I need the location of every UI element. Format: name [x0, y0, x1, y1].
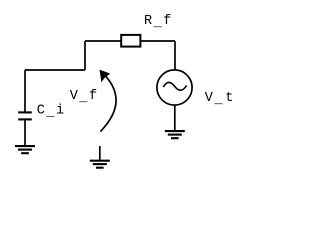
label V_f (node label) [70, 89, 99, 106]
label V_t [205, 91, 235, 108]
resistor R_f (box style) [121, 35, 140, 47]
ground (below C_i) [15, 146, 35, 153]
wire: from source V_t bottom to ground [174, 105, 176, 131]
ground (below V_t) [165, 131, 185, 138]
label C_i [37, 104, 66, 121]
wire: vertical riser from V_f corner up to top rail [84, 41, 86, 70]
wire: left horizontal segment from node V_f corner to left branch [25, 69, 85, 71]
wire: top rail right of R_f [140, 40, 175, 42]
wire: top rail left of R_f [85, 40, 122, 42]
label R_f [144, 14, 173, 31]
wire: left branch down to capacitor C_i [24, 70, 26, 112]
svg-text:V_f: V_f [70, 89, 99, 106]
wire: vertical drop from top rail to source V_t [174, 41, 176, 70]
wire: from capacitor C_i bottom plate to ground [24, 120, 26, 146]
ground (center, reference for V_f) [90, 161, 110, 168]
svg-text:C_i: C_i [37, 104, 66, 121]
voltage source V_t (AC source circle with sine) [157, 70, 192, 105]
annotation: curved arrow pointing up to node V_f [100, 70, 117, 132]
capacitor C_i [18, 112, 32, 119]
wire: stub above center ground [99, 146, 101, 161]
svg-text:V_t: V_t [205, 91, 235, 108]
svg-text:R_f: R_f [144, 14, 173, 31]
